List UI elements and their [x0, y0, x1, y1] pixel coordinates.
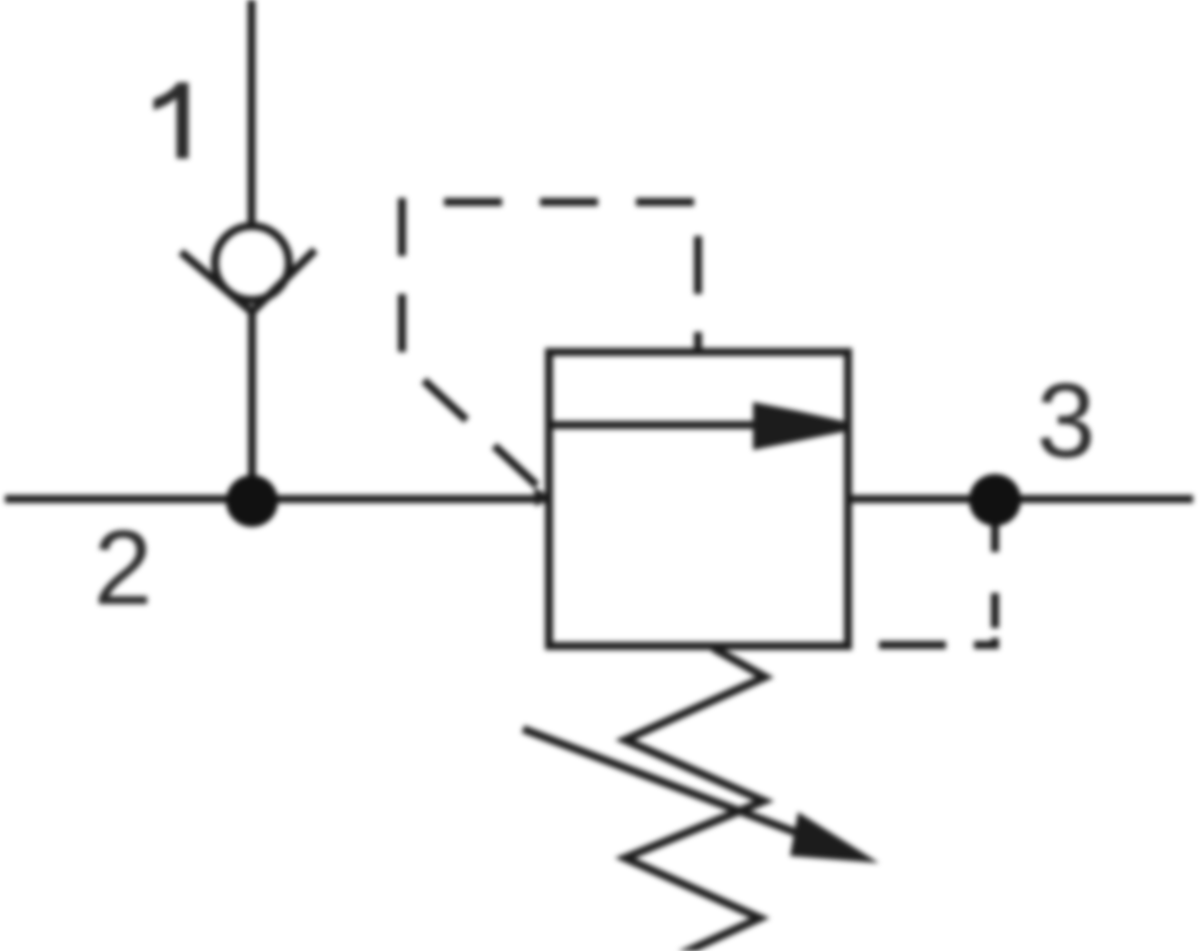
- adjustment arrowhead: [790, 812, 879, 863]
- junction node 2 dot: [226, 475, 278, 527]
- spring: [625, 648, 765, 951]
- adjustment arrow shaft: [523, 729, 800, 834]
- internal flow path line: [549, 421, 762, 429]
- svg-text:3: 3: [1037, 362, 1096, 480]
- valve body U1 square: [549, 352, 848, 646]
- wire valve to node 3: [848, 495, 1193, 503]
- wire port 2 horizontal left: [5, 495, 549, 503]
- wire check valve to node 2: [248, 308, 256, 500]
- internal flow arrowhead: [753, 402, 847, 450]
- pilot line dashed rectangle with arrow: [402, 202, 698, 493]
- pilot arrowhead at valve inlet: [534, 487, 552, 507]
- svg-text:2: 2: [94, 509, 153, 627]
- wire port 1 vertical: [248, 0, 256, 226]
- check valve V1 seat: [181, 250, 315, 312]
- junction node 3 dot: [969, 474, 1021, 526]
- label port 1: [154, 83, 189, 159]
- check valve V1 circle: [215, 226, 289, 300]
- pilot line dashed from node 3: [849, 512, 995, 645]
